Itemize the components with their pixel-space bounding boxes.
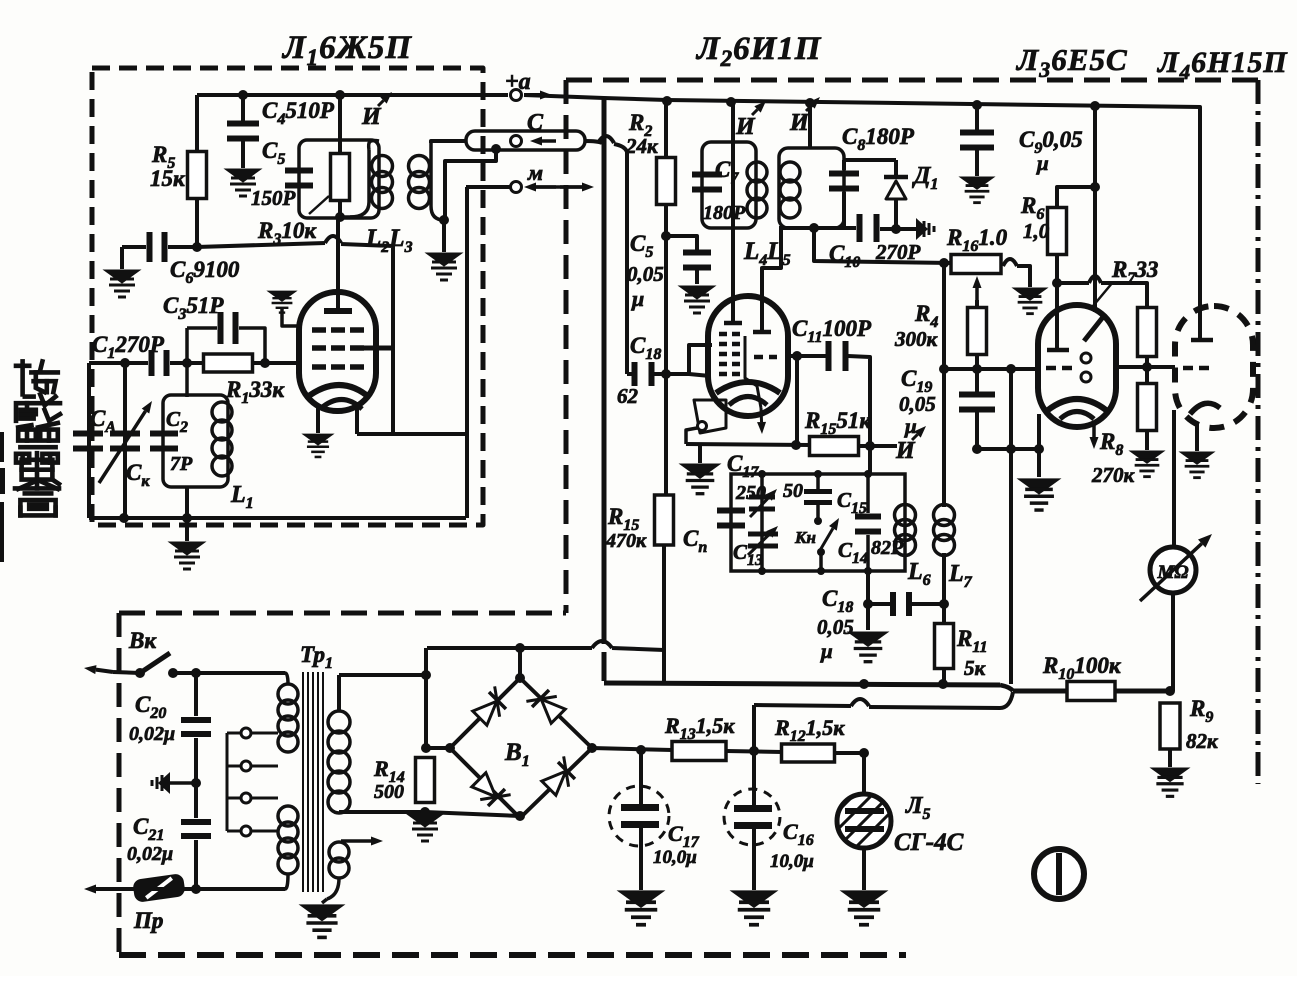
svg-text:И: И — [789, 110, 810, 136]
svg-text:Пр: Пр — [133, 908, 163, 933]
svg-text:500: 500 — [374, 781, 404, 803]
svg-text:1,0: 1,0 — [1023, 219, 1050, 243]
svg-text:0,05: 0,05 — [817, 615, 854, 639]
svg-text:50: 50 — [783, 480, 803, 502]
svg-text:10,0μ: 10,0μ — [770, 851, 814, 872]
svg-text:0,05: 0,05 — [899, 392, 936, 416]
svg-text:300к: 300к — [894, 327, 939, 351]
svg-text:Л46Н15П: Л46Н15П — [1156, 46, 1288, 84]
svg-text:180P: 180P — [703, 202, 746, 224]
svg-text:150P: 150P — [251, 186, 296, 210]
svg-text:0,02μ: 0,02μ — [129, 723, 175, 745]
svg-text:7P: 7P — [170, 453, 193, 475]
svg-text:μ: μ — [820, 639, 833, 663]
svg-text:μ: μ — [904, 414, 917, 438]
svg-text:270P: 270P — [875, 240, 921, 264]
svg-text:5к: 5к — [964, 656, 987, 680]
svg-text:+а: +а — [505, 69, 531, 95]
svg-text:82P: 82P — [871, 537, 904, 559]
svg-text:Вк: Вк — [128, 628, 157, 653]
svg-text:10,0μ: 10,0μ — [653, 847, 697, 868]
svg-text:С: С — [527, 110, 544, 136]
svg-text:μ: μ — [631, 286, 644, 311]
svg-text:0,02μ: 0,02μ — [127, 843, 173, 865]
svg-text:Кн: Кн — [794, 528, 816, 547]
svg-text:μ: μ — [1036, 151, 1049, 175]
svg-text:Л36Е5С: Л36Е5С — [1015, 42, 1128, 82]
svg-text:15к: 15к — [150, 166, 186, 191]
svg-text:24к: 24к — [625, 134, 659, 158]
svg-text:м: м — [527, 160, 543, 185]
svg-text:270к: 270к — [1091, 463, 1136, 487]
svg-text:0,05: 0,05 — [627, 262, 664, 286]
svg-text:Л26И1П: Л26И1П — [695, 31, 822, 71]
svg-text:МΩ: МΩ — [1156, 562, 1188, 583]
svg-text:И: И — [361, 104, 382, 130]
svg-text:И: И — [735, 114, 756, 140]
svg-text:Л16Ж5П: Л16Ж5П — [281, 30, 412, 70]
svg-text:СГ-4С: СГ-4С — [894, 829, 964, 856]
svg-text:470к: 470к — [605, 530, 647, 552]
svg-text:62: 62 — [617, 384, 639, 408]
svg-text:82к: 82к — [1186, 729, 1219, 753]
svg-text:И: И — [895, 438, 916, 464]
svg-text:250: 250 — [735, 482, 766, 504]
